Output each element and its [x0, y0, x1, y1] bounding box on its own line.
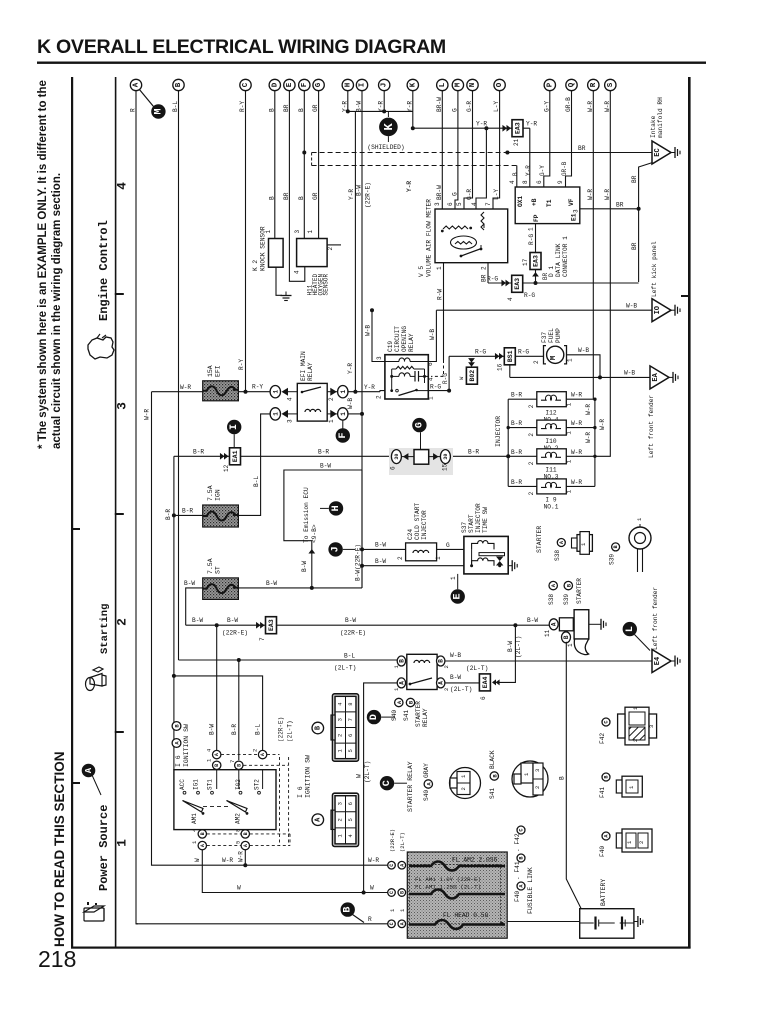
svg-text:STARTER RELAY: STARTER RELAY	[407, 761, 414, 812]
AM1 wiper	[183, 801, 204, 813]
callout H	[329, 501, 343, 515]
svg-text:G-R: G-R	[466, 189, 473, 200]
svg-text:W-R: W-R	[571, 479, 582, 486]
svg-text:2: 2	[376, 395, 383, 399]
svg-text:VOLUME AIR FLOW METER: VOLUME AIR FLOW METER	[426, 199, 433, 277]
svg-text:FUEL: FUEL	[548, 328, 555, 343]
svg-text:Left front fender: Left front fender	[652, 587, 659, 650]
svg-text:6: 6	[447, 202, 454, 206]
svg-text:W-R: W-R	[587, 189, 594, 200]
B-W 22R-E main line	[186, 624, 552, 626]
volume air flow meter V5	[435, 209, 508, 263]
ground point EA left front fender	[650, 366, 678, 389]
svg-text:B-L: B-L	[255, 724, 262, 735]
svg-text:1: 1	[328, 419, 335, 423]
svg-text:F42: F42	[599, 733, 606, 744]
callout K	[379, 118, 398, 137]
knock sensor K2	[269, 239, 284, 268]
svg-text:D: D	[271, 82, 279, 87]
svg-text:B-L: B-L	[344, 653, 355, 660]
W-B to E4 ground	[445, 660, 652, 662]
top connector H	[342, 79, 353, 90]
injector I 9 NO.1	[508, 485, 537, 487]
svg-text:W-R: W-R	[585, 404, 592, 415]
svg-text:COLD START: COLD START	[414, 503, 421, 540]
7.5A IGN fuse	[203, 505, 239, 527]
svg-text:B-W: B-W	[527, 617, 538, 624]
top connector A	[130, 79, 141, 90]
svg-text:EA4: EA4	[482, 676, 489, 688]
svg-text:C24: C24	[407, 529, 414, 540]
svg-text:K 2: K 2	[252, 260, 259, 271]
callout G	[412, 418, 426, 432]
svg-text:AM2: AM2	[235, 813, 242, 824]
svg-text:11: 11	[544, 629, 551, 637]
svg-text:F: F	[338, 432, 349, 438]
svg-text:R-G: R-G	[487, 276, 498, 283]
svg-text:BR-W: BR-W	[436, 185, 443, 200]
B-W lower line to S37	[362, 565, 464, 567]
harness dashed verticals	[279, 757, 281, 846]
svg-text:G: G	[451, 192, 458, 196]
svg-text:R-G: R-G	[475, 349, 486, 356]
svg-text:W-B: W-B	[626, 303, 637, 310]
svg-text:2: 2	[528, 491, 535, 495]
svg-text:A: A	[84, 767, 94, 773]
svg-text:EA3: EA3	[268, 619, 275, 631]
top connector G	[313, 79, 324, 90]
svg-text:GRAY: GRAY	[423, 763, 430, 778]
svg-text:8: 8	[235, 829, 242, 832]
svg-text:3: 3	[115, 402, 130, 410]
svg-text:C: C	[519, 828, 525, 831]
W-B drop to C19 pin6	[428, 310, 436, 361]
svg-text:VF: VF	[568, 198, 575, 206]
svg-text:(22R-E): (22R-E)	[278, 717, 285, 742]
svg-text:1: 1	[528, 227, 535, 231]
svg-text:Engine Control: Engine Control	[97, 220, 111, 321]
svg-text:B-W: B-W	[450, 674, 461, 681]
svg-text:C: C	[389, 922, 395, 925]
svg-text:17: 17	[522, 258, 529, 266]
W wire ign AM1 to fusible link	[202, 850, 388, 893]
svg-text:Left kick panel: Left kick panel	[651, 241, 658, 297]
svg-text:15: 15	[442, 463, 449, 471]
starter relay gray connector cluster	[380, 776, 394, 790]
top connector J	[379, 79, 390, 90]
wire R (W-R) to injector bus	[592, 91, 594, 400]
svg-text:B: B	[175, 82, 183, 87]
callout F	[342, 420, 344, 429]
svg-text:RELAY: RELAY	[422, 708, 429, 727]
top connector Q	[566, 79, 577, 90]
svg-text:B-W: B-W	[320, 463, 331, 470]
svg-text:C: C	[242, 82, 250, 87]
svg-text:3: 3	[337, 802, 344, 805]
svg-text:Intake: Intake	[650, 115, 657, 138]
callout L	[623, 622, 637, 636]
svg-text:W-B: W-B	[578, 347, 589, 354]
svg-text:Y-R: Y-R	[526, 121, 537, 128]
svg-text:B-W: B-W	[184, 580, 195, 587]
F40 connector	[622, 829, 652, 852]
svg-text:2: 2	[528, 461, 535, 465]
wire B (B-L) down then to ignition switch branch	[178, 91, 180, 661]
svg-text:W: W	[237, 885, 241, 892]
svg-text:C: C	[382, 780, 393, 786]
svg-text:5: 5	[235, 841, 242, 844]
svg-text:2: 2	[443, 688, 450, 691]
svg-text:30: 30	[394, 454, 400, 460]
circuit opening relay C19	[385, 355, 428, 399]
svg-text:W-B: W-B	[624, 370, 635, 377]
wire H (Y-R) to bus	[347, 91, 349, 112]
svg-text:B: B	[343, 907, 354, 913]
svg-text:Q: Q	[568, 82, 576, 87]
svg-text:B-R: B-R	[318, 449, 329, 456]
injector right bus	[594, 399, 596, 486]
top connector B	[173, 79, 184, 90]
B-L drop to ST2 A	[174, 676, 263, 751]
svg-text:T1: T1	[546, 199, 553, 207]
svg-text:G-Y: G-Y	[539, 165, 546, 176]
svg-text:START: START	[468, 514, 475, 533]
frame right border	[688, 77, 691, 948]
svg-text:R-G: R-G	[442, 373, 449, 384]
svg-text:2: 2	[632, 739, 639, 742]
svg-text:I12: I12	[545, 409, 556, 416]
wire S (W-R) down	[595, 91, 610, 457]
svg-text:B: B	[398, 659, 405, 663]
svg-text:3: 3	[376, 356, 383, 360]
EFI fuse feed W-R	[152, 391, 203, 393]
callout M	[139, 89, 154, 107]
svg-text:Y-R: Y-R	[348, 189, 355, 200]
svg-text:B-W: B-W	[192, 617, 203, 624]
svg-text:* The system shown here is an: * The system shown here is an EXAMPLE ON…	[37, 80, 49, 449]
svg-text:1: 1	[428, 396, 435, 400]
wire M (G) to air flow meter pin6	[455, 91, 458, 210]
svg-text:2: 2	[638, 841, 645, 844]
wire Q (GR-B) to OX1 pin9	[566, 91, 572, 188]
svg-text:BR: BR	[631, 175, 638, 183]
svg-text:Y-R: Y-R	[406, 181, 413, 192]
wire K (Y-R) to EA3 line	[412, 91, 414, 112]
svg-text:E: E	[453, 593, 464, 599]
ignition bottom pins AM1	[198, 830, 206, 838]
B-W J riser	[361, 470, 363, 588]
svg-text:8: 8	[522, 180, 529, 184]
top connector P	[544, 79, 555, 90]
svg-text:G: G	[446, 542, 450, 549]
wire J (Y-R) short	[383, 91, 385, 112]
Y-R bus segment	[348, 110, 413, 112]
svg-text:ST2: ST2	[254, 779, 261, 790]
fuel pump W-B out	[567, 355, 601, 378]
svg-text:W-R: W-R	[222, 857, 233, 864]
svg-text:4: 4	[509, 180, 516, 184]
svg-text:2: 2	[337, 734, 344, 737]
svg-text:1: 1	[450, 576, 457, 580]
svg-text:NO.1: NO.1	[544, 504, 559, 511]
svg-text:6: 6	[427, 362, 434, 366]
svg-text:L: L	[439, 82, 447, 87]
starter icon	[86, 667, 107, 691]
svg-text:B: B	[298, 196, 305, 200]
svg-text:S38: S38	[554, 550, 561, 561]
callout D	[367, 710, 381, 724]
svg-text:1: 1	[566, 489, 573, 493]
svg-text:6: 6	[347, 802, 354, 805]
svg-text:30: 30	[443, 454, 449, 460]
svg-text:BR: BR	[283, 192, 290, 200]
R-G line C19 pin1	[428, 390, 449, 392]
top connector N	[467, 79, 478, 90]
ST fuse feed	[186, 588, 203, 625]
svg-text:H: H	[331, 505, 342, 511]
svg-text:4: 4	[115, 182, 130, 190]
svg-text:CONNECTOR 1: CONNECTOR 1	[562, 236, 569, 277]
svg-text:IGNITION SW: IGNITION SW	[183, 724, 190, 767]
injector left bus	[507, 399, 509, 486]
svg-text:SENSOR: SENSOR	[323, 273, 330, 295]
fusible link block	[407, 852, 507, 938]
frame left accent line	[71, 77, 73, 948]
callout B	[341, 902, 355, 916]
svg-text:D: D	[369, 714, 380, 720]
svg-text:A: A	[200, 844, 206, 847]
svg-text:N: N	[469, 83, 477, 88]
svg-text:B-R: B-R	[511, 479, 522, 486]
svg-text:1: 1	[115, 839, 130, 847]
svg-text:1: 1	[340, 390, 347, 394]
svg-text:actual circuit shown in the wi: actual circuit shown in the wiring diagr…	[51, 173, 63, 449]
svg-text:E: E	[286, 82, 294, 87]
svg-text:7: 7	[485, 202, 492, 206]
ignition bottom pins AM2	[241, 830, 249, 838]
callout J	[328, 542, 342, 556]
battery	[580, 909, 634, 939]
svg-text:W-B: W-B	[347, 398, 354, 409]
svg-text:S37: S37	[461, 522, 468, 533]
F41 connector	[622, 776, 642, 797]
svg-text:M: M	[550, 355, 558, 360]
svg-text:BR: BR	[578, 145, 586, 152]
I6 label left cluster	[172, 722, 181, 731]
svg-text:8: 8	[347, 702, 354, 705]
svg-text:B: B	[563, 635, 570, 639]
svg-text:(22R-E): (22R-E)	[340, 630, 366, 637]
svg-text:7.5A: 7.5A	[207, 485, 214, 501]
15A EFI fuse	[203, 381, 239, 401]
Y-R riser bus to EFI relay	[354, 111, 356, 391]
ST fuse out B-W	[238, 587, 362, 589]
page title	[37, 36, 446, 58]
W wire from starter relay down	[364, 683, 397, 893]
top connector K	[407, 79, 418, 90]
svg-text:B: B	[243, 832, 249, 835]
top connector D	[269, 79, 280, 90]
svg-text:B: B	[236, 764, 242, 767]
svg-text:INJECTOR: INJECTOR	[475, 503, 482, 533]
E1 BR output	[580, 208, 639, 210]
svg-text:B-W: B-W	[375, 558, 386, 565]
svg-text:S39: S39	[609, 554, 616, 565]
svg-text:O: O	[496, 82, 504, 87]
svg-text:FL HEAD 0.5G: FL HEAD 0.5G	[443, 912, 489, 919]
svg-text:1: 1	[567, 643, 574, 647]
svg-text:INJECTOR: INJECTOR	[421, 510, 428, 540]
svg-text:1: 1	[399, 908, 406, 912]
svg-text:1: 1	[340, 412, 347, 416]
svg-text:(2L-T): (2L-T)	[515, 636, 522, 658]
svg-text:BR: BR	[616, 202, 624, 209]
top connector M	[452, 79, 463, 90]
wire P (G-Y) to OX1 pin6	[544, 91, 550, 188]
svg-text:W-R: W-R	[238, 851, 245, 862]
svg-text:4: 4	[206, 748, 213, 752]
svg-text:A: A	[398, 681, 405, 685]
svg-text:R-Y: R-Y	[238, 359, 245, 370]
injector I10 NO.2	[508, 427, 537, 429]
svg-text:(22R-E): (22R-E)	[222, 630, 248, 637]
svg-text:B-W: B-W	[345, 617, 356, 624]
R wire to FL HEAD	[136, 923, 388, 925]
svg-text:2: 2	[328, 397, 335, 401]
svg-text:B: B	[512, 172, 519, 176]
svg-text:5: 5	[347, 818, 354, 821]
svg-text:I 6: I 6	[175, 755, 182, 767]
svg-text:IG1: IG1	[193, 779, 200, 790]
svg-text:B: B	[519, 856, 525, 859]
svg-text:EFI: EFI	[215, 365, 222, 377]
svg-text:R-Y: R-Y	[252, 384, 263, 391]
svg-text:F37: F37	[541, 332, 548, 343]
svg-text:15A: 15A	[207, 365, 214, 377]
svg-text:E4: E4	[654, 657, 662, 665]
top connector F	[299, 79, 310, 90]
svg-text:B: B	[559, 776, 566, 780]
leader line	[92, 775, 101, 795]
B-W line to cold start injector	[362, 548, 406, 550]
svg-text:EA3: EA3	[514, 278, 521, 290]
injector I12 NO.4	[508, 398, 537, 400]
ignition switch connector A 6pin	[331, 793, 359, 846]
C24 cold start injector	[406, 543, 437, 561]
svg-text:STARTER: STARTER	[576, 578, 583, 604]
svg-text:M: M	[454, 82, 462, 87]
BR riser to EC	[639, 163, 653, 283]
top connector C	[240, 79, 251, 90]
svg-text:<9-B>: <9-B>	[311, 524, 318, 543]
svg-text:21: 21	[513, 138, 520, 146]
svg-text:6: 6	[347, 734, 354, 737]
S40 connector drawing	[450, 768, 481, 799]
svg-text:2: 2	[534, 786, 541, 789]
svg-text:STARTER: STARTER	[415, 701, 422, 727]
svg-text:AM1: AM1	[191, 813, 198, 824]
svg-text:K OVERALL ELECTRICAL WIRING D: K OVERALL ELECTRICAL WIRING DIAGRAM	[37, 36, 446, 58]
svg-text:OPENING: OPENING	[401, 326, 408, 352]
svg-text:Power Source: Power Source	[97, 805, 111, 891]
circled A power source marker	[82, 764, 96, 778]
svg-text:B-W: B-W	[301, 561, 308, 572]
svg-text:B-R: B-R	[231, 724, 238, 735]
injector I11 NO.3	[508, 455, 537, 457]
svg-text:R: R	[590, 82, 598, 87]
svg-text:J: J	[331, 546, 342, 552]
svg-text:IO: IO	[654, 306, 662, 314]
svg-text:Starting: Starting	[99, 604, 111, 654]
svg-text:2: 2	[533, 360, 540, 364]
svg-text:(2L-T): (2L-T)	[364, 761, 371, 783]
svg-text:2: 2	[528, 404, 535, 408]
B-W drop to EA4	[496, 625, 515, 682]
svg-text:16: 16	[497, 363, 504, 371]
svg-text:S40: S40	[391, 710, 398, 721]
svg-text:H: H	[344, 83, 352, 88]
svg-text:3: 3	[648, 725, 655, 728]
svg-text:C: C	[389, 891, 395, 894]
svg-text:Y-R: Y-R	[525, 165, 532, 176]
svg-text:G: G	[315, 82, 323, 87]
svg-text:To Emission ECU: To Emission ECU	[303, 487, 310, 543]
svg-text:(22R-E): (22R-E)	[365, 182, 372, 208]
svg-text:STARTER: STARTER	[536, 526, 543, 553]
svg-text:S39: S39	[563, 594, 570, 605]
svg-text:IGNITION SW: IGNITION SW	[305, 755, 312, 798]
fuel pump F37	[544, 346, 567, 364]
starter motor	[549, 619, 558, 630]
top connector I	[356, 79, 367, 90]
EFI main relay	[270, 386, 280, 398]
svg-text:B-R: B-R	[511, 420, 522, 427]
svg-text:7: 7	[259, 637, 266, 641]
svg-text:4: 4	[294, 270, 301, 274]
AM2 wiper	[227, 801, 248, 813]
svg-text:4: 4	[507, 297, 514, 301]
svg-text:7: 7	[347, 718, 354, 721]
B-W from starter relay to EA4	[445, 682, 479, 684]
svg-text:M: M	[153, 108, 164, 114]
frame bottom line	[71, 947, 691, 949]
svg-text:FL AM2 2.0SG: FL AM2 2.0SG	[452, 857, 498, 864]
svg-text:2: 2	[115, 618, 130, 626]
svg-text:P: P	[546, 82, 554, 87]
W-B line to IO left kick panel	[436, 309, 652, 311]
svg-text:(2L-T): (2L-T)	[466, 665, 488, 672]
svg-text:5: 5	[347, 749, 354, 752]
svg-text:ST: ST	[215, 566, 222, 574]
svg-text:BLACK: BLACK	[489, 750, 496, 769]
svg-text:218: 218	[38, 946, 76, 972]
C19 switch	[390, 389, 393, 392]
Y-R branch down to air flow meter pin4	[484, 126, 488, 130]
svg-text:S: S	[607, 82, 615, 87]
C19 pin3 riser	[372, 310, 385, 361]
B-L 2L-T line	[178, 659, 180, 661]
svg-text:I11: I11	[545, 467, 556, 474]
svg-text:B-W: B-W	[375, 542, 386, 549]
FP R-G drop with EA3 17	[535, 224, 537, 283]
connector pair 30-30 shaded	[389, 448, 453, 475]
top connector S	[605, 79, 616, 90]
S40 S41 relay labels	[395, 698, 403, 706]
svg-text:+B: +B	[531, 198, 538, 206]
svg-text:W-R: W-R	[585, 432, 592, 443]
svg-text:DATA LINK: DATA LINK	[555, 243, 562, 277]
svg-text:3: 3	[573, 209, 580, 213]
